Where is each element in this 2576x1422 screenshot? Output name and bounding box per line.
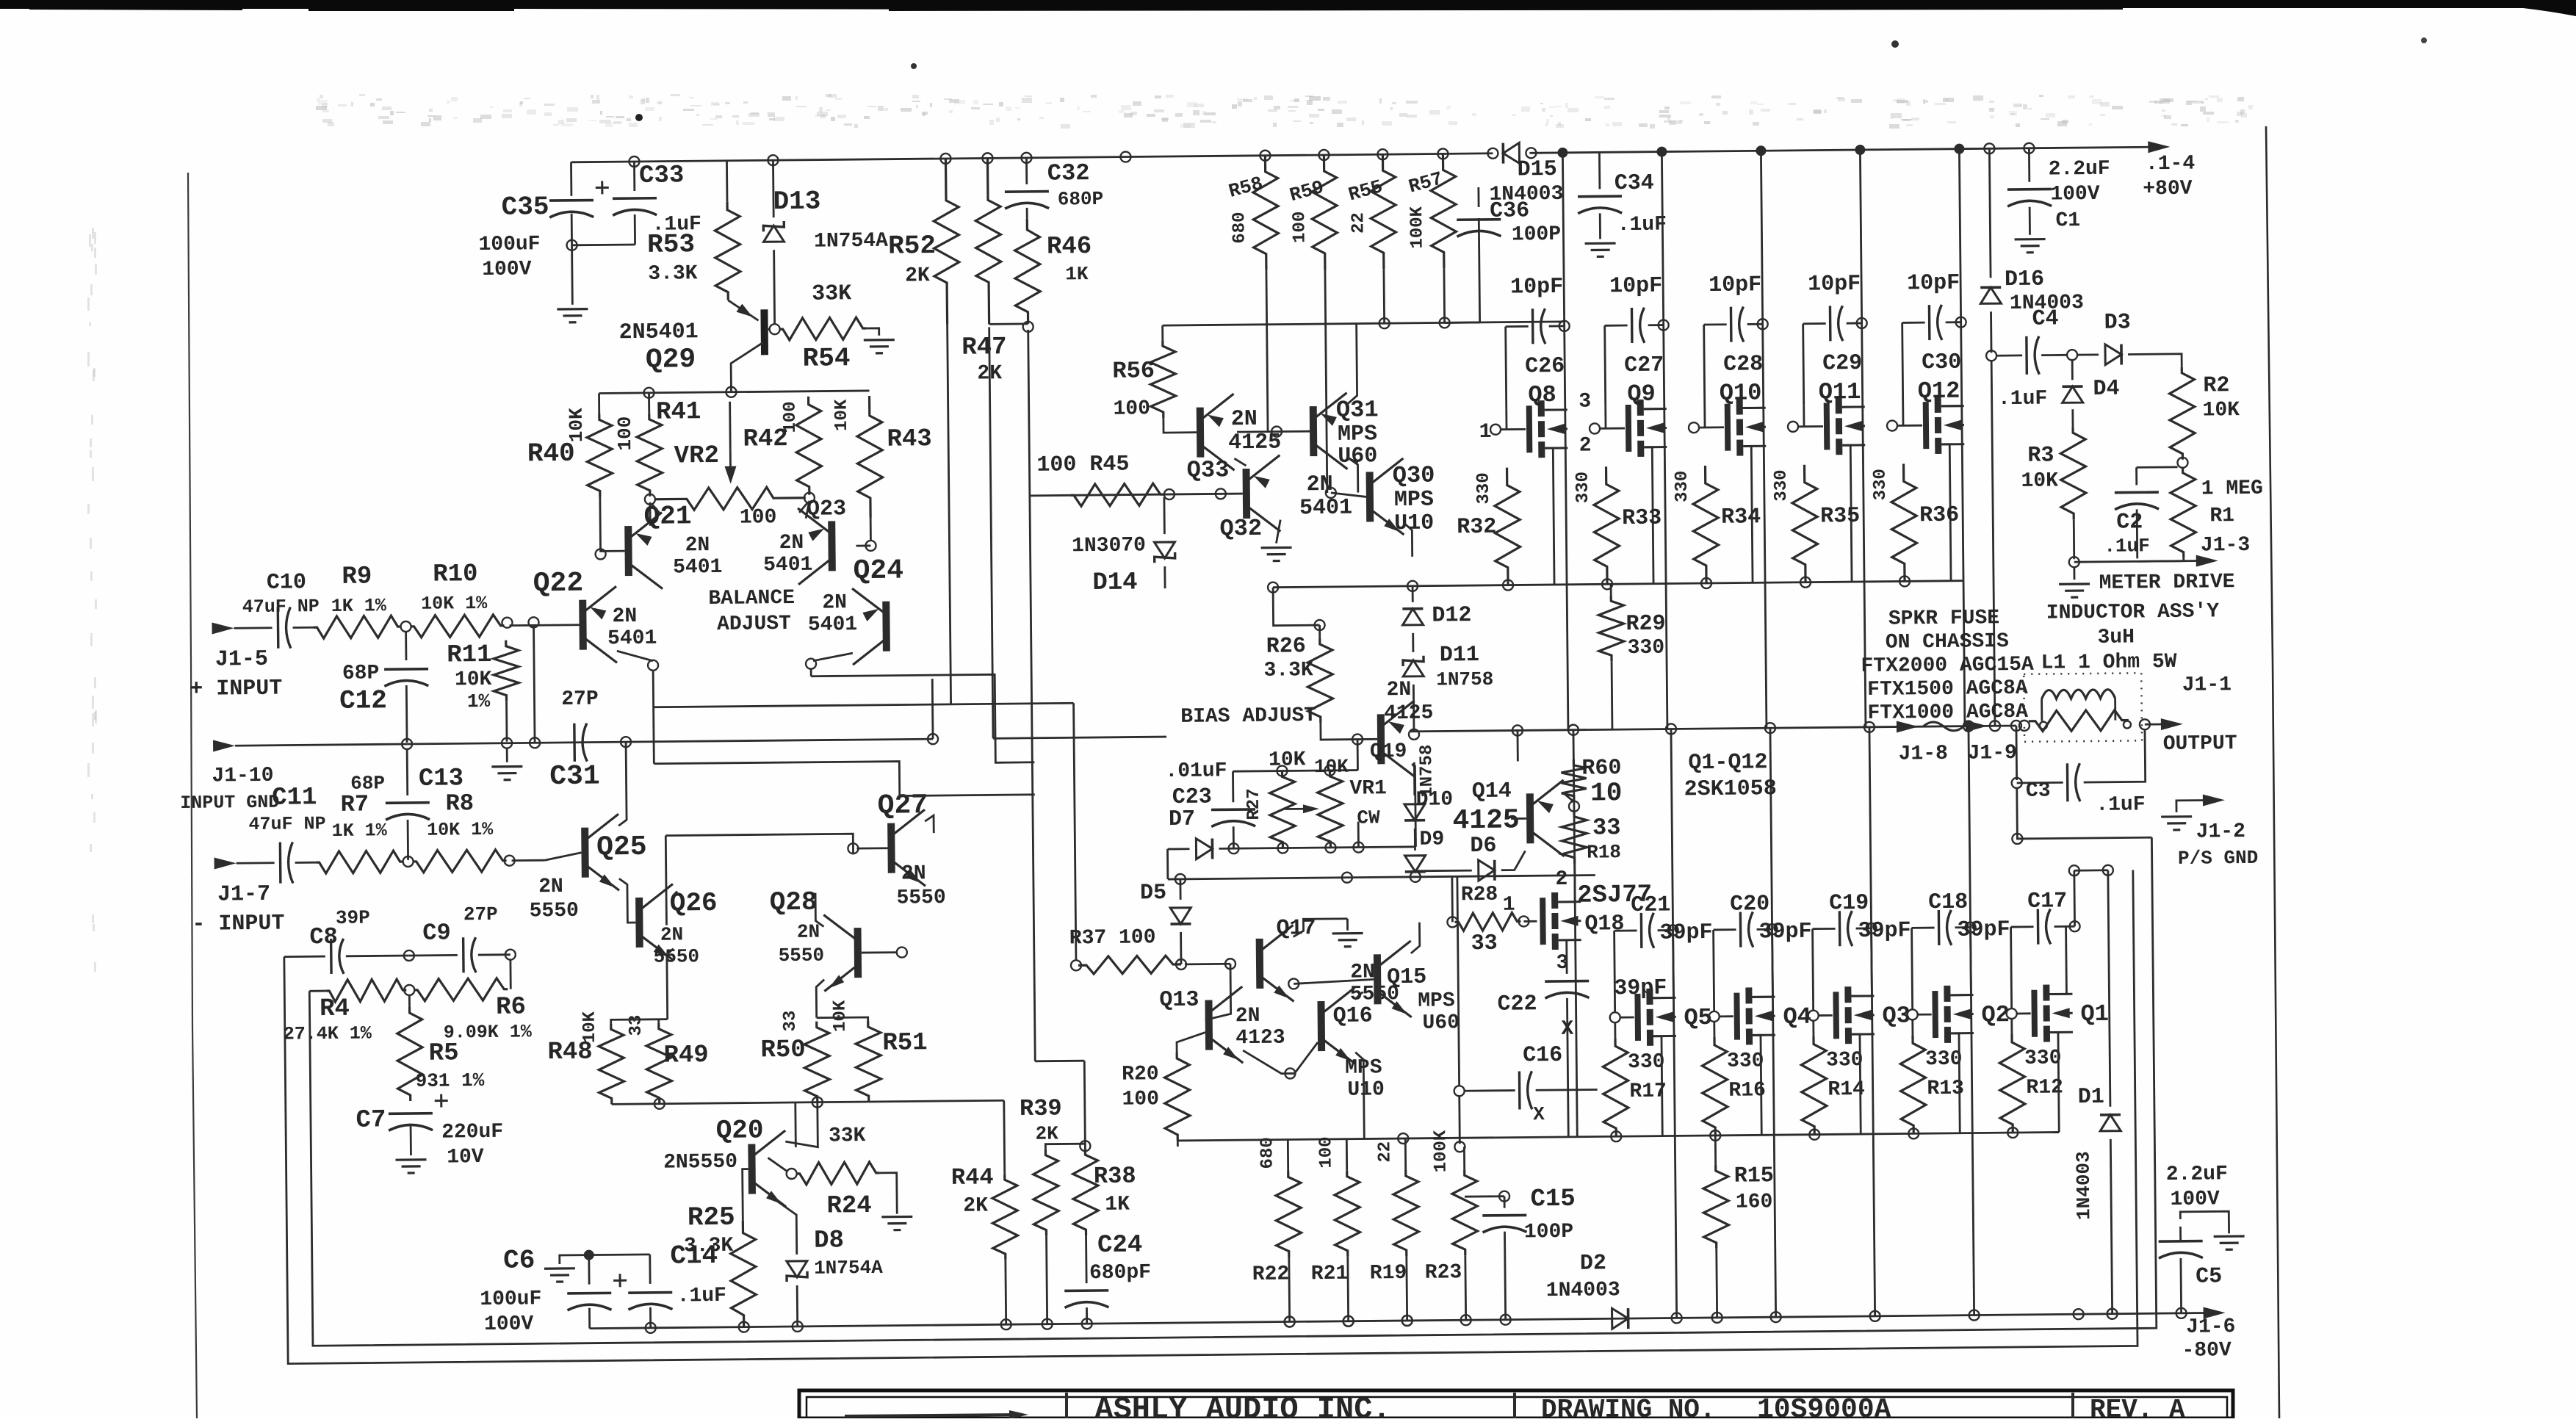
wire R40/R41 top — [599, 391, 870, 394]
page right border — [2266, 126, 2279, 1418]
svg-text:- INPUT: - INPUT — [192, 912, 284, 937]
mosfet Q5 2SJ77 — [1634, 994, 1641, 1041]
svg-text:.1uF: .1uF — [1998, 388, 2048, 411]
junction bus right — [1984, 143, 1994, 154]
transistor Q30 MPSU10 — [1366, 472, 1374, 521]
svg-text:C35: C35 — [501, 192, 549, 223]
wire Q16/Q15 connect — [1354, 992, 1363, 1000]
capacitor C16 X — [1464, 1089, 1515, 1091]
wire drain Q4 — [1752, 996, 1772, 998]
svg-text:D5: D5 — [1140, 881, 1166, 906]
svg-text:47uF NP: 47uF NP — [248, 813, 325, 835]
svg-text:100V: 100V — [484, 1313, 534, 1336]
resistor R11 10K 1% — [494, 640, 519, 701]
svg-text:R1: R1 — [2209, 505, 2234, 527]
svg-text:REV. A: REV. A — [2090, 1395, 2185, 1418]
svg-text:Q19: Q19 — [1370, 740, 1407, 763]
svg-text:C20: C20 — [1730, 892, 1769, 917]
wire R52 down — [948, 325, 951, 704]
svg-text:R54: R54 — [802, 343, 850, 374]
svg-text:100V: 100V — [2050, 183, 2100, 206]
svg-text:330: 330 — [1925, 1048, 1963, 1071]
capacitor C29 10pF — [1803, 322, 1826, 325]
svg-text:1N3070: 1N3070 — [1072, 534, 1146, 557]
mosfet Q10 2SK1058 — [1725, 404, 1731, 451]
svg-text:R8: R8 — [445, 790, 474, 817]
svg-text:C29: C29 — [1822, 351, 1862, 377]
svg-text:10K: 10K — [830, 1000, 850, 1032]
svg-text:R38: R38 — [1094, 1163, 1136, 1191]
svg-text:R22: R22 — [1252, 1263, 1290, 1286]
svg-text:10K: 10K — [455, 668, 492, 691]
svg-text:2K: 2K — [963, 1194, 988, 1217]
transistor Q27 2N5550 — [887, 823, 895, 873]
diode D4 — [2063, 386, 2083, 403]
resistor R15 160 — [1703, 1165, 1729, 1249]
svg-text:100: 100 — [614, 416, 636, 451]
wire drain rail Q9 — [1656, 146, 1667, 156]
svg-text:SPKR FUSE: SPKR FUSE — [1888, 607, 2000, 630]
svg-text:C16: C16 — [1523, 1043, 1562, 1069]
mosfet Q12 2SK1058 — [1923, 402, 1930, 449]
svg-text:100P: 100P — [1512, 223, 1562, 247]
svg-text:5401: 5401 — [607, 627, 657, 651]
diode D10 — [1413, 762, 1415, 795]
resistor R60 10 — [1561, 759, 1587, 802]
svg-text:D14: D14 — [1092, 569, 1138, 597]
resistor R37 100 — [1071, 960, 1081, 970]
wire drain rail Q12 — [1954, 144, 1964, 154]
wire drain Q8 — [1545, 408, 1565, 411]
wire driver bus y672 — [1070, 494, 1243, 495]
svg-text:R28: R28 — [1461, 884, 1498, 906]
svg-text:Q18: Q18 — [1584, 912, 1624, 937]
wire D16 rail — [1989, 148, 1991, 278]
wire drain rail Q8 — [1557, 148, 1567, 158]
svg-text:10pF: 10pF — [1808, 272, 1861, 297]
svg-text:J1-5: J1-5 — [215, 647, 268, 673]
svg-text:5550: 5550 — [654, 945, 700, 968]
svg-text:1%: 1% — [467, 690, 491, 712]
wire Q21/Q23 emitters join — [652, 504, 660, 514]
svg-text:VR1: VR1 — [1349, 777, 1387, 800]
svg-text:33: 33 — [627, 1014, 646, 1036]
svg-text:R18: R18 — [1587, 841, 1621, 863]
svg-text:BIAS ADJUST: BIAS ADJUST — [1180, 704, 1316, 729]
capacitor C15 100P — [1499, 1191, 1509, 1202]
svg-text:10K: 10K — [832, 399, 852, 431]
capacitor C32 680P + resistor R46 1K — [1025, 158, 1028, 184]
svg-text:10K 1%: 10K 1% — [421, 593, 488, 615]
svg-text:2N: 2N — [685, 534, 710, 557]
svg-text:1K 1%: 1K 1% — [332, 820, 388, 842]
svg-text:.1uF: .1uF — [2096, 793, 2146, 817]
transistor Q26 2N5550 — [635, 898, 643, 948]
wire C3 down — [2017, 786, 2152, 839]
svg-text:R9: R9 — [342, 563, 372, 591]
svg-text:+ INPUT: + INPUT — [190, 676, 282, 702]
title block frame — [799, 1390, 2233, 1418]
svg-text:680: 680 — [1258, 1137, 1277, 1169]
wire gate cap rail Q10 — [1704, 325, 1705, 407]
svg-text:100: 100 — [781, 401, 801, 433]
svg-text:Q25: Q25 — [596, 831, 647, 864]
resistor L1 parallel — [2029, 710, 2129, 732]
wire drain Q9 — [1644, 408, 1664, 410]
svg-text:VR2: VR2 — [674, 442, 720, 471]
svg-text:R29: R29 — [1626, 612, 1665, 638]
svg-text:33K: 33K — [812, 281, 851, 307]
svg-text:39pF: 39pF — [1858, 918, 1911, 944]
svg-text:R33: R33 — [1622, 506, 1662, 532]
ground C35 — [557, 309, 588, 322]
resistor R32 330 — [1495, 467, 1521, 585]
resistor R55 22 — [1377, 149, 1388, 159]
svg-text:C12: C12 — [339, 685, 387, 716]
wire R22 top — [1287, 1140, 1289, 1172]
svg-text:5550: 5550 — [896, 887, 946, 910]
resistor R9 1K 1% — [293, 627, 314, 629]
junctions -80 bus — [646, 1323, 656, 1333]
svg-text:680pF: 680pF — [1089, 1261, 1151, 1285]
svg-text:22: 22 — [1375, 1141, 1395, 1163]
svg-text:L1 1 Ohm 5W: L1 1 Ohm 5W — [2041, 651, 2177, 675]
potentiometer VR2 100 — [645, 494, 655, 505]
svg-text:2N: 2N — [901, 862, 926, 885]
capacitor C7 220uF 10V — [389, 1112, 433, 1115]
diode D5 — [1170, 908, 1191, 924]
transistor Q14 2N4125 — [1526, 793, 1534, 843]
resistor R33 330 — [1594, 466, 1620, 584]
capacitor C4 .1uF — [1996, 354, 2022, 356]
transistor Q28 2N5550 — [854, 928, 862, 978]
wire gate cap rail Q8 — [1506, 327, 1507, 409]
svg-text:100uF: 100uF — [480, 1288, 541, 1311]
resistor R59 100 — [1318, 150, 1329, 160]
wire drain Q10 — [1743, 407, 1764, 409]
wire bottom gate bus y1196 — [2074, 869, 2108, 871]
wire source Q5 — [1653, 1036, 1662, 1136]
svg-text:Q9: Q9 — [1627, 380, 1656, 408]
resistor R10 10K 1% — [400, 621, 411, 632]
svg-text:2N: 2N — [797, 921, 820, 943]
svg-text:Q33: Q33 — [1187, 456, 1230, 484]
arrow J1-1 output — [2145, 723, 2168, 726]
svg-text:.1uF: .1uF — [2104, 535, 2150, 557]
wire gate node Q4 — [1709, 1011, 1720, 1022]
diode D12 — [1402, 609, 1423, 625]
svg-text:10: 10 — [1590, 778, 1623, 808]
svg-text:1: 1 — [1503, 894, 1515, 917]
resistor R54 33K — [770, 324, 780, 334]
svg-text:+80V: +80V — [2143, 178, 2193, 201]
wire Q25 collector — [618, 742, 627, 826]
svg-text:Q24: Q24 — [853, 555, 903, 588]
svg-text:R53: R53 — [647, 229, 695, 260]
svg-text:OUTPUT: OUTPUT — [2163, 732, 2237, 756]
svg-text:Q23: Q23 — [807, 497, 846, 522]
svg-text:Q22: Q22 — [533, 568, 584, 600]
title divider drawing no — [1513, 1393, 1516, 1418]
svg-text:C11: C11 — [272, 784, 317, 812]
svg-text:R24: R24 — [826, 1192, 872, 1221]
svg-text:100V: 100V — [482, 258, 532, 281]
wire source Q3 — [1852, 1034, 1861, 1134]
svg-text:5550: 5550 — [779, 945, 825, 967]
svg-text:ASHLY AUDIO INC.: ASHLY AUDIO INC. — [1094, 1392, 1390, 1418]
ground meter — [2073, 566, 2075, 580]
resistor R19 22 — [1393, 1170, 1419, 1256]
wire crossing B — [654, 703, 1074, 707]
diode D9 — [1414, 829, 1416, 851]
capacitor C26 10pF — [1506, 325, 1529, 328]
svg-text:Q15: Q15 — [1387, 965, 1426, 991]
capacitor C24 680pF — [1085, 1235, 1087, 1283]
wire source Q12 — [1941, 444, 1951, 581]
svg-text:3uH: 3uH — [2097, 626, 2135, 649]
svg-text:10V: 10V — [447, 1146, 484, 1169]
wire rail x1352 down — [989, 327, 993, 738]
logo line — [845, 1415, 1021, 1416]
svg-text:330: 330 — [1628, 637, 1665, 660]
svg-text:27.4K 1%: 27.4K 1% — [284, 1022, 372, 1044]
svg-text:C19: C19 — [1829, 891, 1869, 917]
mosfet Q4 2SJ77 — [1733, 993, 1740, 1040]
resistor R38 1K — [1072, 1149, 1098, 1235]
wire D11/D12 column — [1412, 586, 1414, 602]
wire Q18 drain to R18 — [1558, 864, 1575, 902]
svg-text:C1: C1 — [2055, 209, 2080, 232]
svg-text:2N: 2N — [1307, 472, 1333, 497]
svg-text:C28: C28 — [1723, 352, 1763, 378]
capacitor C35 — [570, 162, 572, 196]
svg-text:1N754A: 1N754A — [814, 1257, 883, 1280]
svg-text:R10: R10 — [433, 560, 478, 589]
svg-text:D8: D8 — [814, 1227, 844, 1255]
ground R54 — [867, 328, 879, 336]
wire Q20 emitter to D8 — [770, 1196, 796, 1220]
svg-text:MPS: MPS — [1394, 488, 1434, 513]
svg-text:330: 330 — [1871, 469, 1891, 500]
resistor R49 33 — [646, 1023, 672, 1104]
wire rail top connections — [1567, 585, 1568, 730]
svg-text:10pF: 10pF — [1609, 274, 1662, 300]
resistor R18 33 — [1562, 811, 1587, 864]
capacitor C12 68P — [405, 631, 407, 660]
svg-text:R46: R46 — [1047, 233, 1092, 261]
svg-text:C7: C7 — [356, 1106, 386, 1134]
wire Q24 emitter to bus — [813, 653, 853, 661]
wire rails verticals lower — [1671, 729, 1674, 997]
svg-text:10K: 10K — [580, 1011, 600, 1043]
transistor Q32 2N5401 — [1243, 469, 1251, 519]
svg-text:U10: U10 — [1394, 511, 1434, 537]
wire top source bus y800 — [1273, 581, 1963, 588]
dotted box L1 — [2024, 673, 2142, 742]
svg-text:330: 330 — [1474, 472, 1494, 504]
mosfet Q2 2SJ77 — [1932, 991, 1938, 1038]
resistor R2 10K — [2169, 367, 2195, 460]
svg-text:J1-3: J1-3 — [2201, 534, 2251, 557]
svg-text:2.2uF: 2.2uF — [2049, 158, 2110, 181]
wire Q27 collector — [925, 815, 934, 833]
wire input gnd bus — [235, 744, 407, 746]
svg-text:10K: 10K — [2021, 469, 2058, 492]
svg-text:3.3K: 3.3K — [648, 262, 698, 286]
svg-text:10K 1%: 10K 1% — [427, 819, 494, 841]
svg-text:D1: D1 — [2078, 1085, 2104, 1110]
capacitor C9 27P — [409, 954, 458, 956]
svg-text:.1uF: .1uF — [677, 1285, 727, 1308]
wire R37 to Q17 — [1185, 963, 1230, 965]
wire gate node Q11 — [1788, 422, 1798, 432]
diode D6 — [1479, 860, 1495, 881]
capacitor C6 100uF 100V — [584, 1250, 594, 1260]
resistor R48 10K — [599, 1023, 624, 1104]
junction top bus — [768, 155, 778, 165]
svg-text:Q27: Q27 — [877, 790, 928, 822]
svg-text:47uF NP: 47uF NP — [242, 596, 320, 618]
ground input — [506, 748, 508, 762]
svg-text:330: 330 — [1826, 1049, 1864, 1072]
svg-text:22: 22 — [1349, 212, 1368, 234]
mosfet Q18 2SJ77 — [1540, 898, 1546, 945]
svg-text:C6: C6 — [503, 1245, 535, 1275]
transistor Q25 2N5550 — [581, 828, 589, 878]
svg-text:C27: C27 — [1624, 353, 1664, 379]
svg-text:C4: C4 — [2032, 306, 2058, 331]
resistor R42 100 — [796, 397, 822, 495]
resistor R12 330 — [1999, 1034, 2025, 1133]
transistor Q23 2N5401 — [828, 521, 836, 571]
zener D14 1N3070 — [1154, 542, 1175, 558]
capacitor C3 .1uF — [2016, 726, 2018, 780]
capacitor C28 10pF — [1704, 323, 1727, 325]
resistor R1 1MEG — [2171, 467, 2196, 558]
title divider logo — [1065, 1393, 1068, 1418]
svg-text:C2: C2 — [2116, 510, 2143, 535]
svg-text:1N758: 1N758 — [1436, 668, 1493, 691]
svg-text:C17: C17 — [2027, 889, 2067, 914]
svg-text:27P: 27P — [561, 687, 599, 710]
svg-text:330: 330 — [1772, 469, 1792, 501]
ground Q17 — [1293, 919, 1347, 937]
resistor R20 100 — [1164, 1053, 1190, 1141]
resistor R25 3.3K — [730, 1220, 756, 1327]
svg-text:C5: C5 — [2196, 1264, 2222, 1289]
capacitor C36 100P — [1445, 322, 1480, 324]
svg-text:R43: R43 — [887, 425, 932, 454]
svg-text:1K: 1K — [1105, 1194, 1130, 1216]
wire Q18 source down — [1565, 940, 1567, 974]
resistor R36 330 — [1891, 463, 1918, 581]
svg-text:R34: R34 — [1721, 505, 1761, 530]
svg-text:10K: 10K — [1269, 748, 1306, 771]
mosfet Q11 2SK1058 — [1824, 403, 1830, 450]
svg-text:5550: 5550 — [530, 900, 580, 923]
svg-text:R19: R19 — [1370, 1262, 1407, 1285]
svg-text:U60: U60 — [1422, 1011, 1460, 1034]
wire drain Q3 — [1851, 995, 1872, 997]
transistor Q24 2N5401 — [882, 602, 890, 652]
capacitor C33 — [633, 162, 635, 191]
junction R2/R1 — [2177, 458, 2187, 468]
svg-text:R27: R27 — [1244, 788, 1264, 820]
svg-text:27P: 27P — [463, 903, 498, 925]
svg-text:D16: D16 — [2005, 267, 2044, 293]
svg-text:330: 330 — [1673, 471, 1692, 502]
svg-text:R49: R49 — [663, 1042, 709, 1070]
resistor R6 9.09K 1% — [404, 985, 414, 995]
wire Q26/Q28 emitters — [667, 949, 674, 1019]
svg-text:.1uF: .1uF — [1617, 214, 1667, 237]
diode D15 1N4003 in bus — [1503, 142, 1519, 163]
wire source Q11 — [1842, 445, 1852, 582]
resistor R3 10K — [2060, 427, 2086, 519]
wire R38 top rail — [1035, 1060, 1084, 1062]
wire drain Q12 — [1941, 405, 1962, 407]
resistor R50 33 — [804, 1022, 830, 1102]
arrow VR2 wiper — [729, 450, 732, 468]
svg-text:1N4003: 1N4003 — [2072, 1151, 2095, 1220]
resistor R7 1K 1% — [295, 862, 316, 864]
capacitor C21 39pF — [1614, 930, 1637, 932]
svg-text:33: 33 — [1592, 814, 1621, 841]
transistor Q21 2N5401 — [624, 526, 632, 576]
svg-text:R20: R20 — [1122, 1063, 1159, 1086]
svg-text:R47: R47 — [962, 333, 1007, 362]
capacitor C8 39P — [284, 956, 325, 958]
title divider rev — [2071, 1393, 2074, 1418]
scan noise band top — [87, 94, 2253, 972]
wire bias node — [1352, 735, 1363, 745]
arrow J1-2 P/S GND — [2176, 800, 2208, 812]
svg-text:R21: R21 — [1311, 1263, 1349, 1285]
capacitor C11 47uF NP — [214, 857, 237, 869]
wire rail x2716 to output bus — [1991, 360, 1995, 726]
svg-text:100P: 100P — [1524, 1221, 1574, 1244]
capacitor C30 10pF — [1902, 322, 1925, 324]
svg-text:1K 1%: 1K 1% — [331, 595, 387, 617]
svg-text:R25: R25 — [688, 1202, 735, 1233]
svg-text:C10: C10 — [267, 570, 306, 596]
resistor R28 33 — [1447, 917, 1457, 927]
svg-text:C34: C34 — [1614, 171, 1654, 197]
capacitor C18 39pF — [1912, 927, 1935, 929]
svg-text:.01uF: .01uF — [1165, 759, 1227, 783]
svg-text:R50: R50 — [760, 1036, 806, 1065]
wire +80V top bus — [571, 154, 1493, 162]
svg-text:C32: C32 — [1047, 159, 1090, 187]
wire Q19 emitter — [1412, 764, 1414, 767]
svg-text:.1-4: .1-4 — [2146, 153, 2196, 176]
svg-text:FTX1000 AGC8A: FTX1000 AGC8A — [1867, 701, 2028, 725]
svg-text:D9: D9 — [1419, 828, 1444, 851]
transistor Q15 MPSU60 — [1374, 954, 1382, 1004]
svg-text:R4: R4 — [320, 995, 350, 1023]
svg-text:FTX2000 AGC15A: FTX2000 AGC15A — [1861, 654, 2034, 678]
svg-text:Q21: Q21 — [644, 501, 692, 532]
svg-text:68P: 68P — [342, 662, 380, 685]
svg-text:100V: 100V — [2170, 1188, 2220, 1211]
svg-text:2N: 2N — [822, 591, 847, 614]
svg-text:D3: D3 — [2104, 310, 2131, 335]
svg-text:2N: 2N — [1386, 679, 1411, 701]
resistor R44 2K — [992, 1174, 1018, 1260]
resistor R41 100 — [648, 393, 650, 414]
svg-text:100K: 100K — [1431, 1130, 1451, 1172]
svg-text:R26: R26 — [1266, 634, 1306, 660]
